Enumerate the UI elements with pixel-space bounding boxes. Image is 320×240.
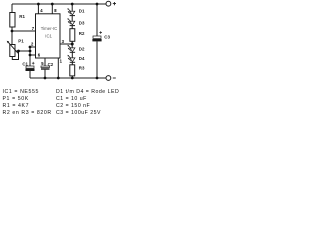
- LED D4: [68, 55, 76, 62]
- svg-text:D1 t/m D4 = Rode LED: D1 t/m D4 = Rode LED: [56, 89, 119, 95]
- svg-text:R2: R2: [79, 31, 85, 36]
- capacitor C2: [41, 66, 50, 70]
- svg-text:C3 = 100uF 25V: C3 = 100uF 25V: [56, 110, 101, 116]
- LED D3: [67, 18, 75, 25]
- svg-text:IC1: IC1: [45, 33, 52, 38]
- wire C3 bottom: [96, 41, 98, 78]
- svg-text:C2 = 150 nF: C2 = 150 nF: [56, 103, 90, 109]
- wire top rail: [12, 3, 106, 5]
- node pin6: [29, 54, 32, 57]
- wire C3 top: [96, 4, 98, 36]
- wire R1 top: [11, 4, 13, 13]
- capacitor C1: [26, 62, 35, 71]
- junction dots: [11, 3, 99, 80]
- op-amp/timer IC box U1: [36, 14, 61, 58]
- capacitor C3: [92, 31, 102, 41]
- svg-text:D1: D1: [79, 8, 85, 13]
- wire pin 2: [30, 46, 36, 48]
- node top rail pin4: [37, 3, 40, 6]
- svg-text:D4: D4: [79, 56, 85, 61]
- svg-text:C1 = 10 uF: C1 = 10 uF: [56, 96, 87, 102]
- node bottom rail R3: [71, 77, 74, 80]
- node bottom rail pin1: [57, 77, 60, 80]
- wire C2 bottom: [44, 70, 46, 78]
- node top rail pin8: [51, 3, 54, 6]
- node bottom rail C2: [44, 77, 47, 80]
- potentiometer P1 body: [10, 45, 15, 57]
- node top rail C3: [96, 3, 99, 6]
- wire LED chain top: [71, 4, 73, 11]
- node top rail LED chain: [71, 3, 74, 6]
- node R1/P1/pin7: [11, 30, 14, 33]
- svg-text:P1: P1: [18, 38, 24, 43]
- svg-text:D3: D3: [79, 20, 85, 25]
- potentiometer P1 arrow: [7, 41, 18, 54]
- wire P1 wiper: [16, 50, 31, 52]
- terminal + (top right): [106, 1, 111, 6]
- LED D2: [68, 45, 76, 52]
- wire R2-pin3-D2: [71, 41, 73, 48]
- wire pin 6: [30, 54, 36, 56]
- svg-text:C2: C2: [48, 62, 54, 67]
- svg-text:D2: D2: [79, 46, 85, 51]
- svg-text:R1 = 4K7: R1 = 4K7: [3, 103, 30, 109]
- wire pin 4: [37, 4, 39, 14]
- wire P1 bottom loop: [12, 51, 18, 60]
- wire D1-D3: [71, 16, 73, 22]
- node bottom rail C3: [96, 77, 99, 80]
- wire node x30 vertical: [29, 47, 31, 66]
- resistor R3: [70, 65, 75, 76]
- wire R1 bottom to P1: [11, 27, 13, 45]
- svg-text:Timer-IC: Timer-IC: [41, 26, 58, 31]
- node wiper-x30: [29, 50, 32, 53]
- node wiper: [17, 50, 20, 53]
- wire C1 bottom: [29, 71, 31, 78]
- svg-text:R1: R1: [19, 14, 25, 19]
- svg-text:R3: R3: [79, 66, 85, 71]
- wire D3-R2: [71, 26, 73, 29]
- terminal - (bottom right): [106, 76, 111, 81]
- svg-text:P1 = 50K: P1 = 50K: [3, 96, 29, 102]
- wire pin 1: [57, 58, 59, 78]
- svg-text:IC1 = NE555: IC1 = NE555: [3, 89, 39, 95]
- wire D4-R3: [71, 62, 73, 65]
- svg-text:R2 en R3 = 820R: R2 en R3 = 820R: [3, 110, 52, 116]
- resistor R1: [10, 13, 15, 28]
- wire R3 bottom: [71, 76, 73, 78]
- wire pin 3: [60, 43, 72, 45]
- wire pin 8: [51, 4, 53, 14]
- svg-text:C1: C1: [22, 62, 28, 67]
- resistor R2: [70, 29, 75, 42]
- wire D2-D4: [71, 52, 73, 58]
- svg-text:C3: C3: [104, 35, 110, 40]
- wire pin 5: [44, 58, 46, 66]
- wire bottom rail: [30, 77, 106, 79]
- node pin2: [29, 46, 32, 49]
- node pin3 output: [71, 43, 74, 46]
- LED D1: [67, 8, 75, 15]
- wire pin 7: [12, 30, 36, 32]
